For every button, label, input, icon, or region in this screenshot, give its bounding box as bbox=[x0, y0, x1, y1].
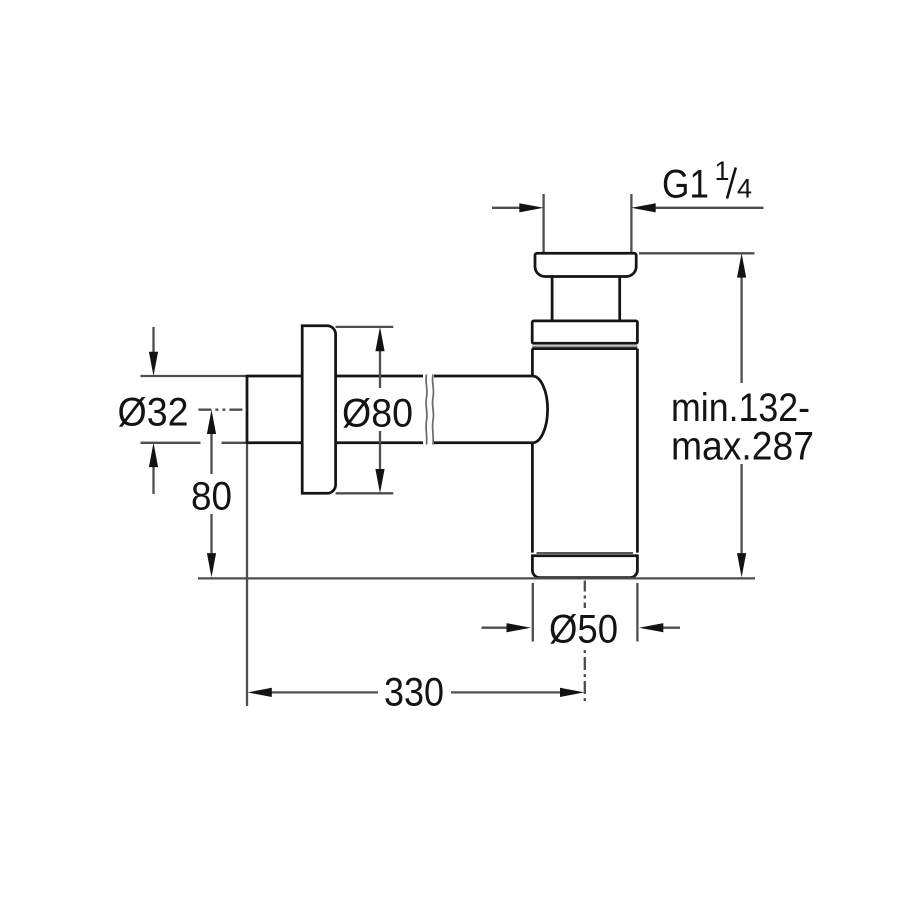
dim O32 bottom arrow bbox=[149, 443, 158, 467]
fraction slash bbox=[727, 168, 736, 199]
dim 330 right arrow bbox=[560, 688, 584, 697]
ext O80 bottom bbox=[336, 492, 394, 494]
pipe top edge bbox=[247, 375, 532, 378]
dim O50 right line bbox=[662, 627, 680, 629]
dim 330 line right bbox=[451, 691, 562, 693]
rim line under flange bbox=[532, 345, 637, 347]
svg-text:min.132-: min.132- bbox=[671, 386, 810, 430]
dim 80 down arrow bbox=[207, 553, 216, 577]
svg-text:Ø50: Ø50 bbox=[549, 608, 618, 652]
dim O80 down arrow bbox=[375, 469, 384, 493]
pipe bottom edge bbox=[247, 441, 532, 444]
dim G1 right arrow bbox=[631, 203, 655, 212]
body right edge bbox=[636, 349, 639, 553]
dim O80 up arrow bbox=[375, 327, 384, 351]
neck right edge bbox=[618, 277, 621, 321]
dim line min-max lower segment bbox=[740, 464, 742, 555]
dim G1 right line bbox=[654, 207, 764, 209]
pipe left end cap bbox=[246, 375, 249, 444]
slip nut flange bbox=[532, 321, 637, 343]
bottle centerline upper bbox=[584, 581, 586, 609]
dim 80 line upper bbox=[210, 432, 212, 474]
bottom cap bbox=[532, 556, 637, 578]
body left edge lower bbox=[531, 443, 534, 553]
neck left edge bbox=[551, 277, 554, 321]
dim line min-max upper segment bbox=[740, 275, 742, 383]
pipe break squiggle right bbox=[432, 375, 433, 445]
bottle centerline lower bbox=[584, 650, 586, 703]
dim 330 left arrow bbox=[248, 688, 272, 697]
pipe break squiggle left bbox=[426, 375, 427, 445]
ext line O32 bottom with gap at 80-dim crossing bbox=[141, 442, 248, 444]
svg-text:80: 80 bbox=[191, 475, 232, 519]
dim 80 up arrow bbox=[207, 410, 216, 434]
ext line O32 top (left of pipe) bbox=[141, 375, 248, 377]
dim G1 left arrow bbox=[519, 203, 543, 212]
ext line min-max top bbox=[639, 252, 755, 254]
dim O50 right arrow bbox=[639, 623, 663, 632]
dim O50 left line bbox=[482, 627, 509, 629]
dim O32 bottom arrow shaft bbox=[152, 466, 154, 494]
svg-text:330: 330 bbox=[384, 671, 444, 715]
dim O80 line upper bbox=[379, 348, 381, 388]
junction arc pipe into body bbox=[532, 376, 547, 443]
dim O80 line lower bbox=[379, 431, 381, 470]
svg-text:4: 4 bbox=[737, 174, 752, 204]
dim O32 top arrow shaft bbox=[152, 327, 154, 354]
dim 330 line left bbox=[270, 691, 378, 693]
pipe centerline dash-dot bbox=[198, 409, 247, 411]
dim G1 left line bbox=[492, 207, 522, 209]
330 extension line below pipe end bbox=[246, 444, 248, 706]
dim 80 line lower bbox=[210, 514, 212, 554]
top nut bbox=[535, 253, 636, 276]
dim O50 left arrow bbox=[507, 623, 531, 632]
svg-text:Ø32: Ø32 bbox=[118, 391, 189, 435]
ext O50 right bbox=[636, 583, 638, 642]
dim min-max down arrow bbox=[737, 553, 746, 577]
G1 extension line right bbox=[630, 194, 632, 253]
svg-text:G1: G1 bbox=[662, 163, 709, 207]
wall flange rosette bbox=[302, 326, 335, 494]
dim O32 top arrow bbox=[149, 352, 158, 376]
ext O50 left bbox=[532, 583, 534, 642]
body left edge upper bbox=[531, 349, 534, 376]
svg-text:max.287: max.287 bbox=[671, 425, 814, 469]
svg-text:Ø80: Ø80 bbox=[342, 392, 413, 436]
dim min-max up arrow bbox=[737, 253, 746, 277]
G1 extension line left bbox=[542, 194, 544, 253]
bottom reference line long bbox=[198, 577, 755, 579]
body top edge bbox=[532, 347, 637, 350]
ext O80 top bbox=[336, 326, 394, 328]
svg-text:1: 1 bbox=[715, 156, 730, 186]
bottom ring thin line bbox=[537, 552, 634, 554]
